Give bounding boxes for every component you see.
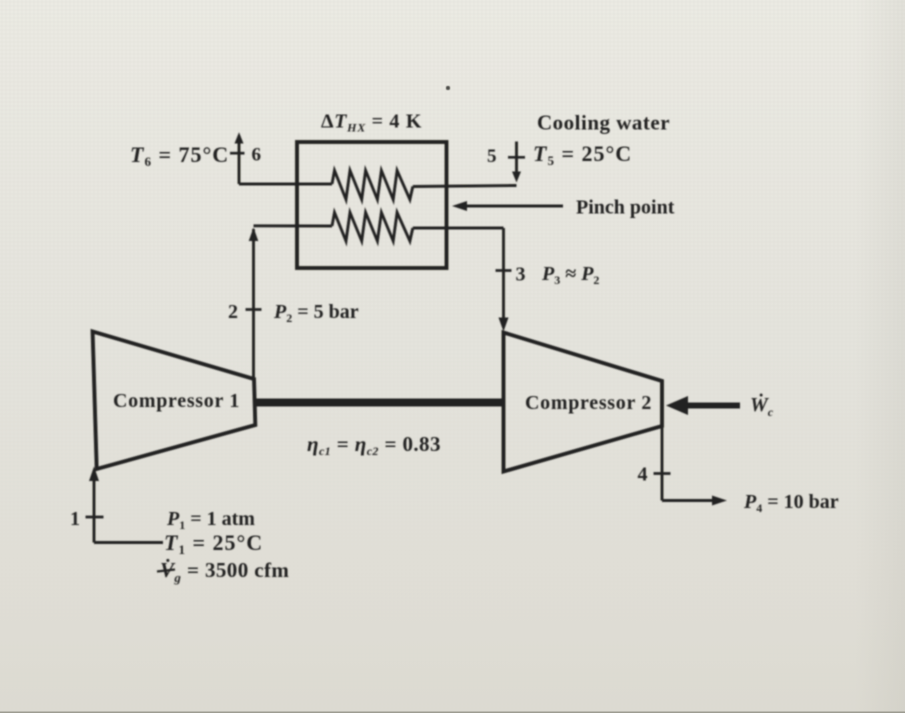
tick state 2 (246, 308, 262, 311)
wire: stream 1 inlet vertical (93, 470, 96, 543)
svg-text:2: 2 (228, 301, 238, 323)
arrowhead stream 5 (down) (512, 172, 521, 183)
tick state 4 (654, 472, 671, 475)
coil (top, cooling water) (332, 171, 413, 200)
arrowhead stream 6 (up) (235, 132, 244, 143)
heat exchanger box HX (297, 142, 447, 268)
wire: stream 2 vertical from compressor 1 (252, 229, 255, 379)
tick state 1 (86, 516, 104, 519)
wire: stream 6 vertical (238, 141, 241, 184)
coil (bottom, air stream) (332, 213, 413, 242)
tick state 6 (230, 152, 245, 155)
tick state 5 (508, 156, 525, 159)
svg-text:Cooling water: Cooling water (537, 111, 670, 135)
strike on V-dot symbol (157, 570, 175, 572)
wire: stream 4 outlet vertical (661, 426, 664, 501)
svg-text:3: 3 (516, 264, 526, 286)
svg-text:Pinch point: Pinch point (576, 197, 675, 219)
svg-text:5: 5 (487, 146, 497, 167)
work input arrow Wc (684, 403, 740, 409)
svg-text:4: 4 (638, 464, 648, 486)
wire: stream 1 inlet horizontal (94, 541, 163, 544)
shaft between compressors (255, 399, 504, 407)
compressor C1 body (93, 332, 256, 470)
wire: stream 3 out of HX (413, 227, 504, 230)
wire: stream 5 vertical drop (515, 142, 518, 175)
svg-text:6: 6 (252, 145, 262, 166)
wire: stream 3 vertical down (502, 228, 505, 324)
pinch point arrow (462, 205, 563, 208)
wire: stream 5 lead into HX (413, 186, 517, 187)
compressor C2 body (504, 333, 663, 472)
svg-text:ΔTHX = 4 K: ΔTHX = 4 K (321, 111, 422, 135)
arrowhead stream 2 (up at corner) (249, 228, 259, 242)
svg-text:P3 ≈ P2: P3 ≈ P2 (541, 263, 599, 287)
wire: stream 2 horizontal into HX (254, 224, 333, 227)
svg-text:1: 1 (70, 508, 80, 530)
svg-text:P2 = 5 bar: P2 = 5 bar (273, 301, 359, 325)
wire: stream 4 outlet horizontal with arrow (662, 499, 716, 502)
tick state 3 (496, 269, 512, 272)
svg-text:Compressor 2: Compressor 2 (525, 392, 652, 414)
arrowhead stream 1 (up into compressor) (89, 467, 99, 482)
svg-text:Compressor 1: Compressor 1 (113, 390, 240, 412)
arrowhead stream 3 (down) (499, 318, 509, 332)
wire: stream 6 lead out of HX (239, 183, 332, 186)
